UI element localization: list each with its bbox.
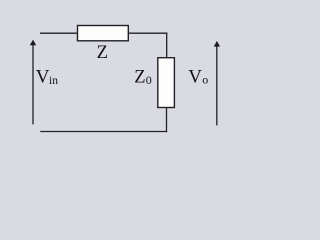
label Vo bbox=[188, 66, 208, 87]
wire top-right (Z to corner) bbox=[128, 32, 167, 34]
impedance Z (series box) bbox=[78, 26, 129, 41]
svg-text:V: V bbox=[188, 66, 202, 87]
svg-text:0: 0 bbox=[146, 73, 152, 87]
svg-text:Z: Z bbox=[97, 43, 108, 63]
svg-text:V: V bbox=[36, 66, 50, 87]
arrow Vo (output voltage arrow, pointing up) bbox=[214, 41, 220, 126]
svg-text:in: in bbox=[49, 75, 58, 87]
svg-text:Z: Z bbox=[134, 68, 145, 88]
label Vin bbox=[36, 66, 58, 87]
svg-text:o: o bbox=[202, 72, 208, 86]
label Z bbox=[97, 43, 108, 63]
wire vertical corner down to Z0 top bbox=[166, 33, 168, 58]
arrow Vin (input voltage arrow, pointing up) bbox=[30, 40, 36, 125]
wire top-left (input node to Z) bbox=[40, 32, 78, 34]
impedance Z0 (shunt box) bbox=[158, 58, 175, 108]
wire bottom rail bbox=[40, 131, 167, 133]
wire Z0 bottom to bottom rail bbox=[166, 108, 168, 133]
label Z0 bbox=[134, 68, 151, 88]
